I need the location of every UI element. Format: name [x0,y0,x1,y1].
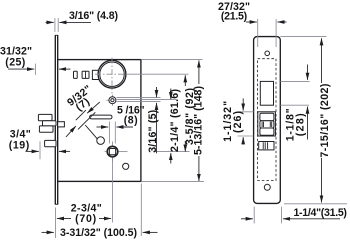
svg-text:(28): (28) [294,113,306,136]
diagonal bevel lines [76,110,86,120]
mounting hole A [97,137,105,145]
cylinder centerline horizontal [95,73,127,75]
svg-text:31/32": 31/32" [0,45,32,57]
lock case [58,60,141,182]
dim 31/32 (25) [0,45,70,75]
dim 5-13/16 (148) [193,60,205,181]
svg-text:(26): (26) [232,111,244,133]
deadbolt [39,126,53,132]
svg-text:(8): (8) [124,114,138,126]
cylinder retainer squares [74,71,90,78]
svg-text:5-13/16" (148): 5-13/16" (148) [193,86,205,155]
svg-text:(25): (25) [5,57,25,69]
dim 27/32 (21.5) [218,1,287,47]
cylinder centerline vertical [111,58,113,94]
dim 5/16 (8) [97,105,145,144]
dim 2-3/4 (70) [57,202,111,225]
svg-text:3/16" (5): 3/16" (5) [147,110,159,153]
dim 7-15/16 (202) [280,37,347,204]
svg-text:(70): (70) [75,213,96,225]
fixing screw [106,95,116,106]
svg-text:3/16" (4.8): 3/16" (4.8) [69,10,118,22]
slot [90,115,112,119]
auxiliary bolt [45,140,56,146]
svg-text:3-31/32" (100.5): 3-31/32" (100.5) [60,227,137,239]
dim 3-31/32 (100.5) [42,227,158,239]
svg-text:1-1/4"(31.5): 1-1/4"(31.5) [293,207,347,219]
cylinder cam [92,70,101,79]
latchbolt [38,114,64,126]
dim 1-1/32 (26) [222,98,254,144]
faceplate side view [55,35,58,204]
dim 3-5/8 (92) [184,75,196,151]
dim 3/4 (19) [9,128,70,159]
svg-text:2-1/4" (61.6): 2-1/4" (61.6) [169,89,181,152]
mounting hole B [123,163,129,169]
screw reference triple lines [116,97,160,99]
dim 3/16 (4.8) top [46,10,119,32]
svg-text:(19): (19) [9,139,30,151]
deadbolt opening [258,112,276,136]
dim 1-1/4 (31.5) [241,207,347,224]
bottom screw hole [264,184,270,190]
auxiliary opening [259,142,274,150]
dim 9/32 (7) arrows [87,102,100,113]
dim 2-1/4 (61.6) [169,89,181,164]
svg-text:(21.5): (21.5) [221,11,247,23]
extension lines right of case [141,59,203,61]
dim 3/16 (5) [147,87,159,153]
hidden case dashed rect [258,59,276,181]
spindle hub [105,141,118,161]
faceplate plate [254,37,281,204]
dim 1-1/8 (28) [280,65,309,142]
bottom extension lines [55,208,57,239]
top screw hole [265,51,270,56]
cylinder [98,60,126,88]
svg-text:7-15/16" (202): 7-15/16" (202) [319,84,331,158]
latch opening [260,81,273,105]
